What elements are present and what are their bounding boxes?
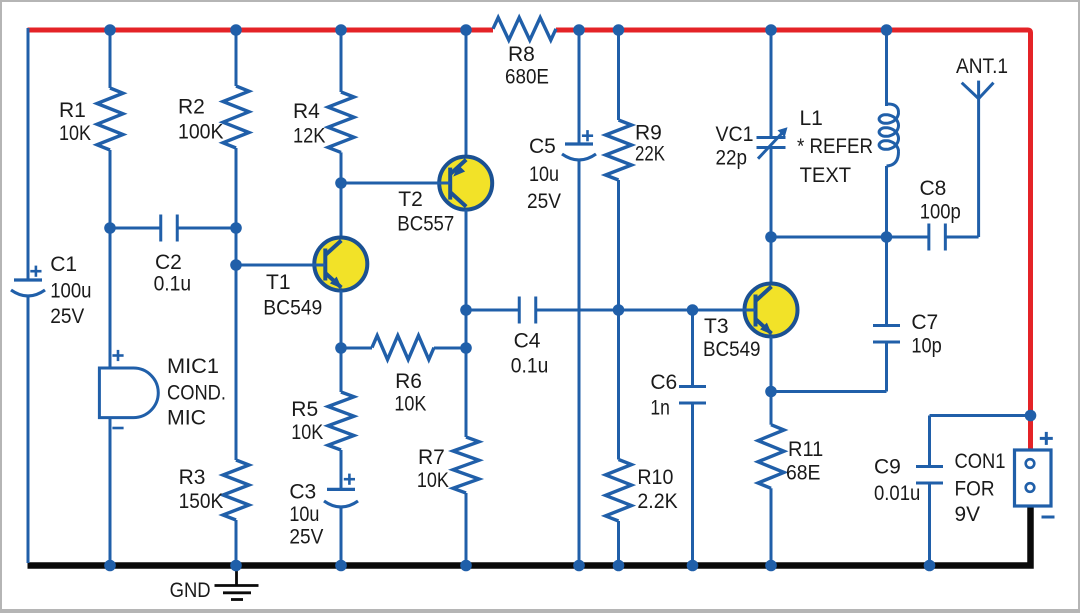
- svg-text:9V: 9V: [955, 503, 981, 526]
- svg-text:2.2K: 2.2K: [637, 490, 677, 513]
- svg-text:10u: 10u: [289, 503, 319, 526]
- svg-text:R5: R5: [291, 398, 318, 421]
- svg-text:ANT.1: ANT.1: [956, 55, 1008, 78]
- svg-text:BC549: BC549: [703, 338, 761, 361]
- svg-text:R8: R8: [508, 43, 535, 66]
- svg-text:R10: R10: [637, 466, 673, 489]
- svg-text:1n: 1n: [650, 397, 670, 420]
- svg-text:R4: R4: [293, 100, 320, 123]
- svg-text:C6: C6: [650, 371, 677, 394]
- svg-text:10u: 10u: [529, 163, 559, 186]
- svg-text:22K: 22K: [635, 143, 665, 166]
- svg-text:T2: T2: [398, 188, 423, 211]
- svg-text:0.01u: 0.01u: [874, 482, 920, 505]
- svg-text:680E: 680E: [505, 66, 549, 89]
- svg-text:25V: 25V: [527, 190, 561, 213]
- svg-text:100u: 100u: [50, 280, 91, 303]
- svg-text:25V: 25V: [289, 526, 323, 549]
- svg-text:C1: C1: [50, 253, 77, 276]
- svg-text:* REFER: * REFER: [797, 135, 873, 158]
- svg-text:10K: 10K: [394, 393, 426, 416]
- svg-text:10K: 10K: [291, 421, 323, 444]
- svg-text:R3: R3: [179, 466, 206, 489]
- svg-text:100K: 100K: [178, 121, 224, 144]
- svg-text:C5: C5: [529, 135, 556, 158]
- svg-text:T1: T1: [266, 271, 291, 294]
- svg-text:COND.: COND.: [167, 382, 226, 405]
- svg-text:CON1: CON1: [955, 450, 1006, 473]
- svg-text:T3: T3: [704, 315, 729, 338]
- svg-text:C4: C4: [514, 330, 541, 353]
- svg-text:TEXT: TEXT: [800, 164, 852, 187]
- svg-text:R6: R6: [395, 370, 422, 393]
- svg-text:R7: R7: [418, 446, 445, 469]
- svg-text:VC1: VC1: [716, 123, 754, 146]
- svg-text:R1: R1: [59, 99, 86, 122]
- svg-text:MIC: MIC: [167, 407, 206, 430]
- svg-text:FOR: FOR: [955, 478, 995, 501]
- svg-text:68E: 68E: [786, 462, 821, 485]
- svg-text:R2: R2: [178, 96, 205, 119]
- svg-text:100p: 100p: [920, 201, 961, 224]
- svg-text:BC549: BC549: [263, 297, 322, 320]
- svg-text:C2: C2: [155, 251, 182, 274]
- svg-text:10K: 10K: [417, 469, 449, 492]
- svg-text:GND: GND: [170, 579, 211, 602]
- svg-text:C9: C9: [874, 456, 901, 479]
- svg-text:22p: 22p: [716, 146, 748, 169]
- svg-text:R9: R9: [635, 122, 662, 145]
- svg-text:R11: R11: [788, 438, 823, 461]
- svg-text:C3: C3: [289, 481, 316, 504]
- svg-text:12K: 12K: [293, 125, 326, 148]
- svg-text:150K: 150K: [179, 490, 224, 513]
- svg-text:L1: L1: [800, 107, 823, 130]
- svg-text:10p: 10p: [911, 335, 941, 358]
- svg-text:BC557: BC557: [397, 213, 454, 236]
- svg-text:C8: C8: [920, 177, 947, 200]
- svg-text:0.1u: 0.1u: [154, 273, 192, 296]
- svg-text:25V: 25V: [50, 305, 84, 328]
- svg-text:0.1u: 0.1u: [511, 355, 549, 378]
- svg-text:10K: 10K: [59, 122, 91, 145]
- svg-text:C7: C7: [911, 311, 938, 334]
- svg-text:MIC1: MIC1: [167, 355, 219, 378]
